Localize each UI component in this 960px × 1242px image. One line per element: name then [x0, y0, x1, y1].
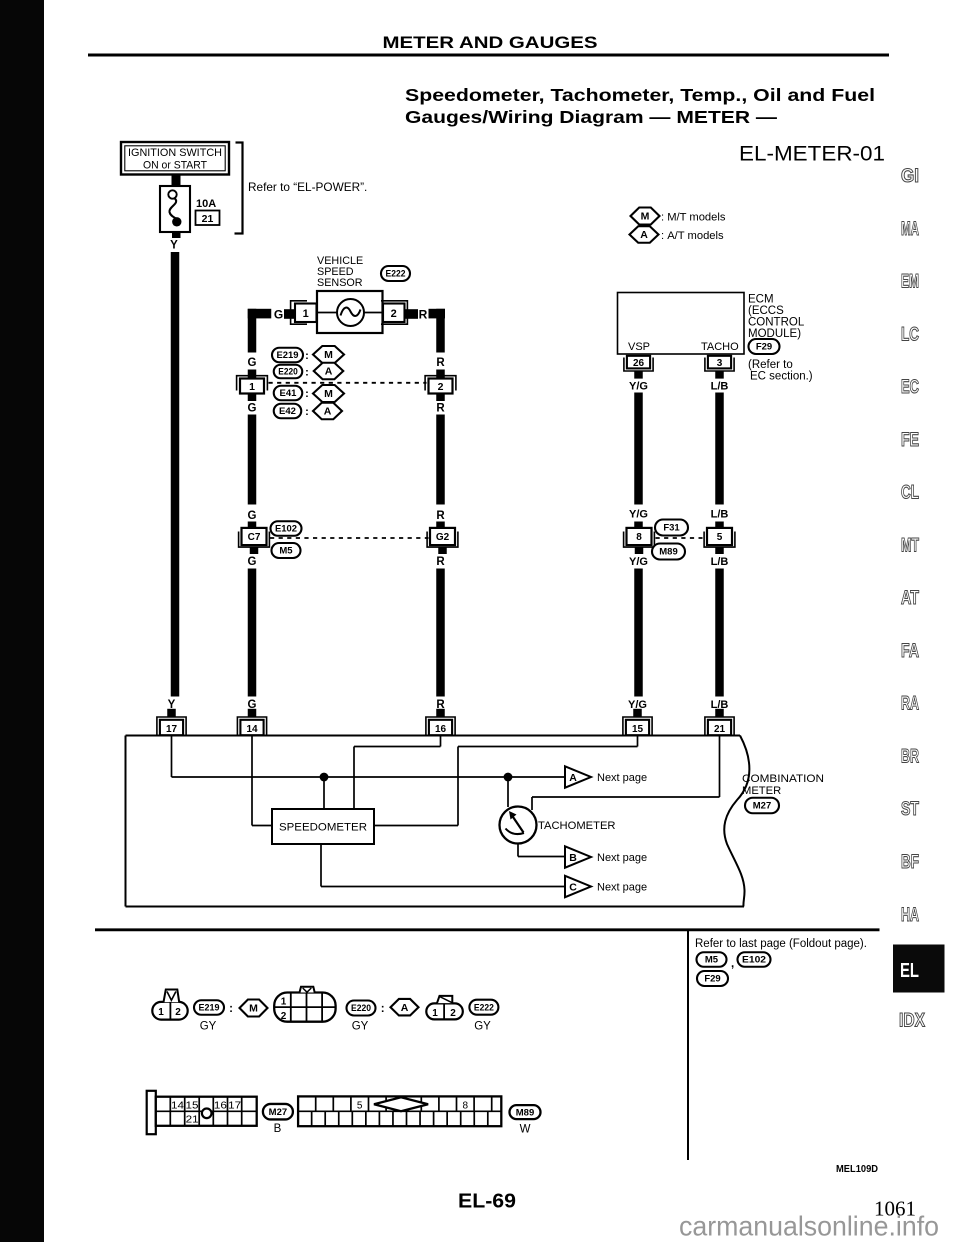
svg-text::: : — [305, 406, 309, 418]
svg-text:16: 16 — [214, 1101, 228, 1112]
svg-text:Next page: Next page — [597, 852, 647, 864]
svg-text:G: G — [248, 556, 257, 568]
svg-text::: : — [229, 1003, 233, 1015]
svg-text:Speedometer, Tachometer, Temp.: Speedometer, Tachometer, Temp., Oil and … — [405, 85, 875, 105]
svg-text:14: 14 — [171, 1101, 185, 1112]
svg-text:C7: C7 — [248, 532, 261, 543]
svg-text:MT: MT — [901, 535, 919, 556]
svg-text:COMBINATION: COMBINATION — [742, 773, 824, 785]
svg-text:EM: EM — [901, 272, 919, 293]
svg-text:1: 1 — [303, 308, 309, 320]
svg-text:METER AND GAUGES: METER AND GAUGES — [383, 33, 598, 52]
svg-text:A: A — [640, 229, 648, 241]
svg-text:5: 5 — [717, 532, 723, 543]
svg-text:GY: GY — [352, 1021, 369, 1033]
svg-text:HA: HA — [901, 905, 919, 926]
svg-text:E222: E222 — [386, 269, 406, 280]
svg-text:Gauges/Wiring Diagram — METER: Gauges/Wiring Diagram — METER — — [405, 107, 778, 127]
svg-text:2: 2 — [175, 1007, 181, 1018]
svg-text:VSP: VSP — [628, 341, 650, 353]
svg-text:EC section.): EC section.) — [750, 371, 813, 383]
svg-text:E220: E220 — [278, 367, 298, 378]
svg-text:Refer to “EL-POWER”.: Refer to “EL-POWER”. — [248, 180, 367, 194]
svg-text:14: 14 — [246, 724, 258, 735]
svg-text:R: R — [436, 357, 445, 369]
svg-text:IDX: IDX — [899, 1011, 925, 1032]
svg-text:10A: 10A — [196, 198, 216, 210]
svg-text:B: B — [274, 1123, 282, 1135]
svg-text:EL: EL — [900, 960, 919, 982]
svg-text:Y/G: Y/G — [629, 509, 648, 521]
svg-text:E219: E219 — [277, 350, 299, 361]
svg-text:FE: FE — [901, 430, 919, 451]
svg-text:21: 21 — [186, 1114, 200, 1125]
svg-text:17: 17 — [228, 1101, 242, 1112]
svg-text:LC: LC — [901, 324, 919, 345]
svg-text:SENSOR: SENSOR — [317, 277, 363, 289]
svg-text:BR: BR — [901, 747, 919, 768]
svg-text:M: M — [324, 388, 333, 400]
svg-text:BF: BF — [901, 852, 919, 873]
svg-text:AT: AT — [901, 588, 919, 609]
svg-text:21: 21 — [714, 724, 726, 735]
svg-text:SPEEDOMETER: SPEEDOMETER — [279, 822, 367, 834]
svg-text:ON or START: ON or START — [143, 160, 207, 172]
svg-text:M27: M27 — [753, 801, 771, 812]
svg-text:2: 2 — [438, 381, 444, 393]
svg-text:MEL109D: MEL109D — [836, 1163, 878, 1175]
svg-text:R: R — [436, 510, 445, 522]
svg-text:EC: EC — [901, 377, 919, 398]
svg-text:,: , — [731, 958, 734, 970]
svg-text:MA: MA — [901, 219, 919, 240]
svg-text:G: G — [248, 510, 257, 522]
svg-text:1: 1 — [281, 996, 287, 1007]
svg-text:TACHOMETER: TACHOMETER — [538, 820, 615, 832]
svg-text:2: 2 — [281, 1011, 287, 1022]
svg-text:1: 1 — [158, 1007, 164, 1018]
svg-text:1: 1 — [432, 1008, 438, 1019]
svg-text:E102: E102 — [275, 524, 297, 535]
svg-text:26: 26 — [633, 358, 645, 369]
svg-text:M89: M89 — [516, 1107, 534, 1118]
svg-text:G: G — [248, 403, 257, 415]
svg-text:EL-METER-01: EL-METER-01 — [739, 143, 885, 166]
svg-text:M: M — [249, 1003, 258, 1015]
svg-text:CONTROL: CONTROL — [748, 317, 805, 329]
svg-text:ECM: ECM — [748, 294, 774, 306]
svg-text:EL-69: EL-69 — [458, 1190, 516, 1213]
svg-text:E222: E222 — [474, 1002, 494, 1013]
svg-text:15: 15 — [632, 724, 644, 735]
svg-text:L/B: L/B — [711, 556, 729, 568]
svg-text:17: 17 — [166, 724, 178, 735]
svg-text:G: G — [274, 308, 283, 322]
svg-text:(ECCS: (ECCS — [748, 305, 784, 317]
svg-text:IGNITION SWITCH: IGNITION SWITCH — [128, 147, 222, 159]
svg-text:Next page: Next page — [597, 772, 647, 784]
svg-text:5: 5 — [357, 1101, 363, 1112]
svg-text:M: M — [324, 349, 333, 361]
svg-text:M5: M5 — [279, 546, 293, 557]
svg-text:GY: GY — [200, 1021, 217, 1033]
svg-text:F29: F29 — [756, 342, 772, 353]
svg-text:21: 21 — [202, 213, 214, 225]
svg-text:Next page: Next page — [597, 882, 647, 894]
svg-text::: : — [305, 388, 309, 400]
svg-text:8: 8 — [463, 1101, 469, 1112]
svg-text:TACHO: TACHO — [701, 341, 739, 353]
svg-text:R: R — [419, 308, 428, 322]
svg-text:M5: M5 — [705, 955, 719, 966]
svg-text:8: 8 — [636, 532, 642, 543]
svg-text:A: A — [325, 366, 333, 378]
svg-text:16: 16 — [435, 724, 447, 735]
svg-text:GY: GY — [474, 1021, 491, 1033]
svg-text:G2: G2 — [436, 532, 450, 543]
svg-text:C: C — [569, 881, 577, 893]
svg-text:FA: FA — [901, 641, 919, 662]
svg-text:Refer to last page (Foldout pa: Refer to last page (Foldout page). — [695, 938, 867, 950]
svg-text:1: 1 — [249, 381, 255, 393]
svg-text:Y/G: Y/G — [629, 556, 648, 568]
svg-text:M27: M27 — [269, 1107, 287, 1118]
svg-text:: A/T models: : A/T models — [661, 230, 724, 242]
svg-text:E220: E220 — [351, 1003, 371, 1014]
svg-text:W: W — [520, 1124, 531, 1136]
svg-text:L/B: L/B — [711, 509, 729, 521]
svg-text:G: G — [248, 357, 257, 369]
svg-text:A: A — [401, 1002, 409, 1014]
svg-text:R: R — [436, 556, 445, 568]
svg-text:E42: E42 — [279, 406, 296, 417]
svg-text::: : — [381, 1003, 385, 1015]
svg-text:GI: GI — [901, 166, 919, 187]
svg-text:E219: E219 — [199, 1003, 220, 1014]
svg-text:3: 3 — [717, 358, 723, 369]
svg-text:Y: Y — [170, 240, 178, 252]
svg-text:2: 2 — [450, 1008, 456, 1019]
svg-text:F31: F31 — [663, 523, 680, 534]
svg-text:METER: METER — [742, 785, 781, 797]
svg-text:ST: ST — [901, 799, 919, 820]
svg-text:15: 15 — [186, 1101, 200, 1112]
svg-text::: : — [305, 366, 309, 378]
svg-text:L/B: L/B — [711, 381, 729, 393]
svg-text:M: M — [641, 211, 650, 223]
svg-text:R: R — [436, 403, 445, 415]
svg-text:carmanualsonline.info: carmanualsonline.info — [679, 1211, 939, 1242]
svg-text:E41: E41 — [280, 388, 298, 399]
svg-text:: M/T models: : M/T models — [661, 212, 726, 224]
svg-text:F29: F29 — [704, 974, 720, 985]
svg-text:A: A — [324, 406, 332, 418]
svg-text:(Refer to: (Refer to — [748, 359, 793, 371]
svg-text:B: B — [569, 852, 577, 864]
svg-text:E102: E102 — [742, 955, 766, 966]
svg-text::: : — [305, 350, 309, 362]
svg-text:A: A — [569, 772, 577, 784]
svg-text:CL: CL — [901, 483, 919, 504]
svg-text:Y/G: Y/G — [629, 381, 648, 393]
svg-text:2: 2 — [391, 308, 397, 320]
svg-text:M89: M89 — [659, 547, 677, 558]
svg-text:RA: RA — [901, 694, 919, 715]
